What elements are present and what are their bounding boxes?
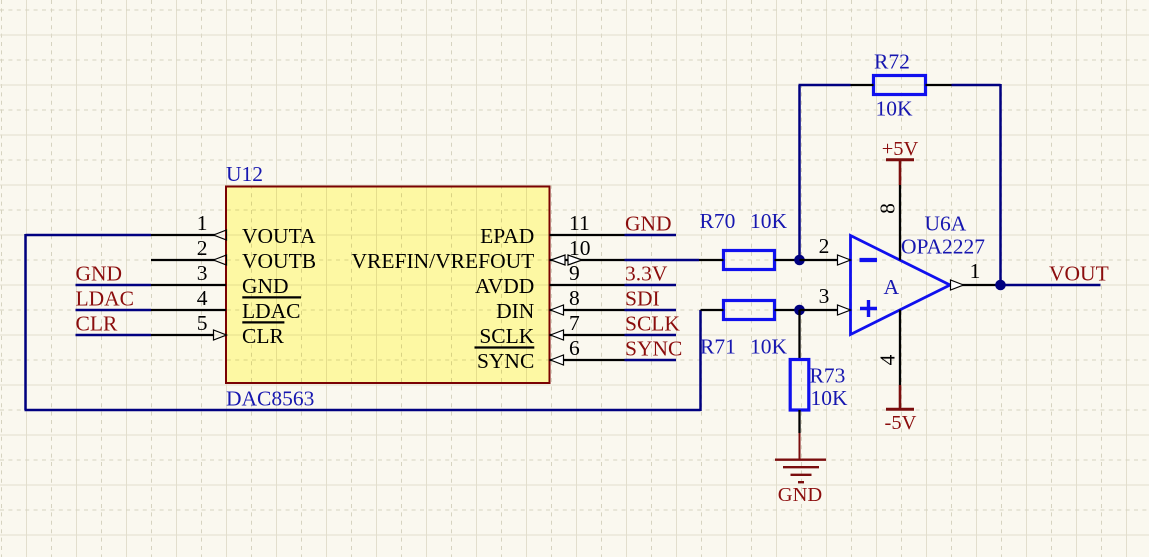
svg-text:3: 3 bbox=[197, 261, 208, 285]
svg-text:1: 1 bbox=[970, 259, 981, 283]
svg-text:R72: R72 bbox=[874, 50, 910, 74]
svg-text:DIN: DIN bbox=[496, 299, 535, 323]
op-amp pin 8 (V+) bbox=[876, 185, 901, 260]
wire junction down to R73 bbox=[798, 310, 800, 360]
junction node at output bbox=[995, 280, 1006, 291]
svg-text:EPAD: EPAD bbox=[480, 224, 534, 248]
svg-text:VREFIN/VREFOUT: VREFIN/VREFOUT bbox=[352, 249, 535, 273]
svg-text:1: 1 bbox=[197, 211, 208, 235]
wire pin 11 to GND label bbox=[625, 234, 677, 237]
svg-text:2: 2 bbox=[197, 236, 208, 260]
svg-text:-5V: -5V bbox=[885, 412, 917, 434]
value 10K (R70) bbox=[750, 209, 788, 233]
net label VOUT bbox=[1049, 262, 1109, 286]
net label GND (pin 11) bbox=[625, 212, 672, 236]
net label SYNC (pin 6) bbox=[625, 337, 682, 361]
net label GND (pin 3) bbox=[76, 262, 123, 286]
svg-text:3.3V: 3.3V bbox=[625, 262, 668, 286]
wire top left horizontal bbox=[799, 84, 851, 87]
svg-text:4: 4 bbox=[876, 354, 900, 365]
pin 6 (SYNC) bbox=[477, 336, 625, 373]
wire up to R71 bbox=[699, 310, 702, 411]
svg-text:LDAC: LDAC bbox=[76, 287, 135, 311]
junction node at R70 / op-amp pin 2 bbox=[794, 255, 805, 266]
wire pin 10 to R70 bbox=[625, 259, 700, 262]
ground label GND bbox=[778, 484, 822, 506]
svg-text:SYNC: SYNC bbox=[477, 349, 534, 373]
svg-text:11: 11 bbox=[569, 211, 590, 235]
svg-text:9: 9 bbox=[569, 261, 580, 285]
svg-text:DAC8563: DAC8563 bbox=[226, 387, 314, 411]
op-amp pin 1 (output) bbox=[950, 259, 1001, 290]
power port -5V bbox=[885, 385, 917, 434]
wire LDAC to pin 4 bbox=[76, 309, 152, 312]
net label SDI (pin 8) bbox=[625, 287, 660, 311]
svg-text:U6A: U6A bbox=[925, 212, 967, 236]
junction node at R71 / op-amp pin 3 bbox=[794, 305, 805, 316]
svg-text:VOUTB: VOUTB bbox=[242, 249, 316, 273]
svg-text:VOUT: VOUT bbox=[1049, 262, 1109, 286]
svg-text:R70: R70 bbox=[700, 209, 736, 233]
overline for pin 5 CLR bbox=[242, 321, 284, 323]
designator R71 bbox=[700, 335, 736, 359]
resistor R71 bbox=[701, 301, 800, 320]
svg-text:7: 7 bbox=[569, 311, 580, 335]
pin 7 (SCLK) bbox=[479, 311, 624, 348]
pin 9 (AVDD) bbox=[475, 261, 625, 298]
wire junction up left vertical bbox=[798, 85, 801, 260]
value 10K (R72) bbox=[876, 97, 914, 121]
op-amp pin 2 (inverting input) bbox=[800, 234, 851, 265]
svg-text:8: 8 bbox=[569, 286, 580, 310]
svg-text:5: 5 bbox=[197, 311, 208, 335]
svg-text:4: 4 bbox=[197, 286, 208, 310]
pin 8 (DIN) bbox=[496, 286, 624, 323]
svg-text:U12: U12 bbox=[226, 162, 263, 186]
resistor R70 bbox=[699, 251, 800, 270]
value DAC8563 bbox=[226, 387, 314, 411]
net label CLR (pin 5) bbox=[76, 312, 118, 336]
designator U6A bbox=[925, 212, 967, 236]
overline for pin 4 LDAC bbox=[242, 296, 301, 298]
wire GND to pin 3 bbox=[76, 284, 152, 287]
pin 5 (CLR) bbox=[151, 311, 284, 348]
svg-text:6: 6 bbox=[569, 336, 580, 360]
op-amp pin 4 (V-) bbox=[876, 310, 901, 385]
designator R73 bbox=[810, 364, 846, 388]
pin 11 (EPAD) bbox=[480, 211, 624, 248]
resistor R73 bbox=[790, 360, 809, 434]
svg-text:+5V: +5V bbox=[882, 138, 919, 160]
op-amp pin 3 (non-inverting input) bbox=[800, 284, 851, 315]
pin 2 (VOUTB) bbox=[151, 236, 316, 273]
svg-text:2: 2 bbox=[819, 234, 830, 258]
pin 3 (GND) bbox=[151, 261, 289, 298]
wire bottom horizontal bbox=[25, 409, 701, 412]
svg-text:LDAC: LDAC bbox=[242, 299, 301, 323]
svg-text:R73: R73 bbox=[810, 364, 846, 388]
power port +5V bbox=[882, 138, 919, 185]
wire pin 6 to SYNC label bbox=[625, 359, 677, 362]
svg-text:AVDD: AVDD bbox=[475, 274, 534, 298]
net label SCLK (pin 7) bbox=[625, 312, 680, 336]
svg-text:10K: 10K bbox=[876, 97, 914, 121]
wire pin 8 to SDI label bbox=[625, 309, 677, 312]
IC U12 body border bbox=[226, 187, 550, 384]
svg-text:GND: GND bbox=[76, 262, 123, 286]
pin 4 (LDAC) bbox=[151, 286, 301, 323]
overline for pin 6 SYNC bbox=[475, 346, 535, 348]
op-amp U6A bbox=[851, 236, 951, 335]
pin 10 (VREFIN/VREFOUT) bbox=[352, 236, 625, 273]
svg-text:OPA2227: OPA2227 bbox=[901, 235, 985, 259]
designator U12 bbox=[226, 162, 263, 186]
designator R70 bbox=[700, 209, 736, 233]
designator R72 bbox=[874, 50, 910, 74]
value OPA2227 bbox=[901, 235, 985, 259]
svg-text:CLR: CLR bbox=[242, 324, 284, 348]
svg-text:10K: 10K bbox=[811, 386, 849, 410]
resistor R72 bbox=[851, 76, 952, 95]
wire output to VOUT bbox=[1001, 284, 1101, 287]
svg-text:VOUTA: VOUTA bbox=[242, 224, 316, 248]
net label LDAC (pin 4) bbox=[76, 287, 135, 311]
value 10K (R73) bbox=[811, 386, 849, 410]
wire pin 7 to SCLK label bbox=[625, 334, 677, 337]
value 10K (R71) bbox=[750, 335, 788, 359]
wire left vertical bbox=[24, 234, 27, 410]
svg-text:SCLK: SCLK bbox=[479, 324, 534, 348]
pin 1 (VOUTA) bbox=[151, 211, 316, 248]
wire CLR to pin 5 bbox=[76, 334, 152, 337]
svg-text:3: 3 bbox=[819, 284, 830, 308]
wire pin 1 horizontal bbox=[26, 234, 152, 237]
svg-text:SDI: SDI bbox=[625, 287, 660, 311]
svg-text:8: 8 bbox=[876, 203, 900, 214]
wire pin 9 to 3.3V label bbox=[625, 284, 677, 287]
svg-text:GND: GND bbox=[778, 484, 822, 506]
ground symbol GND bbox=[775, 433, 826, 482]
svg-text:10K: 10K bbox=[750, 209, 788, 233]
svg-text:GND: GND bbox=[625, 212, 672, 236]
svg-text:10K: 10K bbox=[750, 335, 788, 359]
svg-text:CLR: CLR bbox=[76, 312, 118, 336]
wire right vertical down to output bbox=[999, 84, 1002, 285]
svg-text:SYNC: SYNC bbox=[625, 337, 682, 361]
svg-text:SCLK: SCLK bbox=[625, 312, 680, 336]
IC U12 body fill bbox=[226, 187, 550, 384]
svg-text:A: A bbox=[884, 275, 900, 299]
svg-text:R71: R71 bbox=[700, 335, 736, 359]
net label 3.3V (pin 9) bbox=[625, 262, 668, 286]
wire top right horizontal bbox=[952, 84, 1001, 87]
svg-text:GND: GND bbox=[242, 274, 289, 298]
